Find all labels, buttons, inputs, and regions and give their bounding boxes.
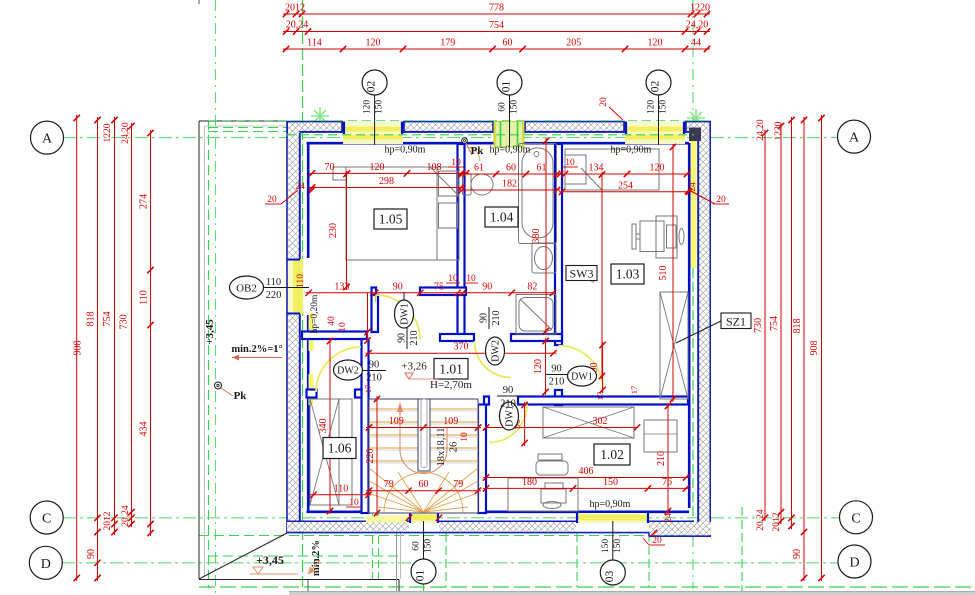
svg-text:90: 90 bbox=[479, 313, 490, 323]
svg-text:1.01: 1.01 bbox=[439, 361, 463, 376]
svg-text:10: 10 bbox=[349, 498, 359, 508]
wall between 1.04 and 1.03 upper bbox=[555, 144, 562, 345]
svg-text:150: 150 bbox=[601, 539, 611, 554]
svg-text:61: 61 bbox=[537, 163, 547, 174]
yellow sill strip bottom left of window O1 bbox=[366, 516, 407, 523]
svg-text:24: 24 bbox=[664, 513, 674, 523]
svg-text:90: 90 bbox=[792, 549, 803, 559]
stairs landing arc bbox=[400, 450, 447, 473]
label OB2 with fraction bbox=[230, 276, 264, 299]
svg-text:134: 134 bbox=[589, 163, 604, 174]
svg-text:205: 205 bbox=[566, 38, 581, 49]
right dim line 818 bbox=[803, 117, 805, 581]
svg-text:10: 10 bbox=[460, 432, 470, 442]
svg-text:A: A bbox=[849, 131, 860, 146]
green line top wall terrace part bbox=[208, 131, 302, 133]
wardrobe SZ1 room 1.03 bbox=[660, 292, 688, 399]
dim chain room 1.02 bottom bbox=[483, 487, 689, 489]
svg-text:120: 120 bbox=[647, 100, 657, 115]
svg-text:510: 510 bbox=[658, 266, 669, 281]
door tag DW2 shower bbox=[486, 337, 505, 365]
small desk right room 1.02 bbox=[644, 420, 677, 452]
svg-text:SZ1: SZ1 bbox=[726, 315, 746, 329]
green site line bottom y=587 bbox=[199, 586, 975, 588]
svg-text:hp=0,90m: hp=0,90m bbox=[490, 145, 531, 156]
svg-text:C: C bbox=[851, 511, 860, 526]
svg-text:24,20: 24,20 bbox=[686, 20, 709, 31]
door arc DW1 room 1.05 bbox=[376, 295, 421, 340]
svg-text:03: 03 bbox=[604, 571, 616, 583]
svg-text:1.02: 1.02 bbox=[600, 447, 624, 462]
window O1 bottom 60/150 bbox=[409, 513, 439, 523]
left dim line 730 bbox=[131, 123, 133, 527]
svg-text:10: 10 bbox=[451, 158, 461, 168]
green vertical window03 right bbox=[648, 533, 650, 587]
svg-text:02: 02 bbox=[366, 81, 378, 93]
svg-text:hp=0,90m: hp=0,90m bbox=[590, 499, 631, 510]
svg-text:D: D bbox=[41, 557, 51, 572]
axis green vertical x=693 through wall bbox=[692, 128, 694, 536]
label SW3 bbox=[566, 266, 597, 281]
svg-text:150: 150 bbox=[613, 539, 623, 554]
axis bubble A right bbox=[838, 120, 871, 153]
axis bubble D left bbox=[29, 546, 62, 579]
stairs outline bbox=[369, 399, 478, 513]
svg-text:60: 60 bbox=[412, 541, 422, 551]
top dimension line 2 bbox=[283, 31, 710, 33]
left wall yellow strips bbox=[309, 313, 314, 351]
dim chain room 1.04 top bbox=[459, 173, 560, 175]
extra ticks near C axis bbox=[406, 515, 412, 521]
svg-text:17: 17 bbox=[629, 386, 639, 395]
dim chain corridor y=293 bbox=[306, 292, 556, 294]
label SZ1 with leader bbox=[676, 321, 721, 343]
svg-text:SW3: SW3 bbox=[570, 267, 594, 281]
wall top of 1.02 main bbox=[518, 397, 688, 405]
svg-text:754: 754 bbox=[489, 20, 504, 31]
svg-text:20,24: 20,24 bbox=[756, 509, 766, 531]
svg-text:Pk: Pk bbox=[471, 145, 485, 157]
svg-text:44: 44 bbox=[691, 38, 701, 49]
green verticals hall door bottom bbox=[372, 512, 374, 580]
svg-text:754: 754 bbox=[769, 316, 780, 331]
dim 380 room 1.04 bbox=[545, 138, 547, 334]
tick marks wall corners bbox=[309, 187, 315, 193]
green vertical stairs door bbox=[445, 533, 447, 587]
svg-text:380: 380 bbox=[531, 229, 542, 244]
svg-text:+3,26: +3,26 bbox=[401, 361, 427, 373]
svg-text:1220: 1220 bbox=[690, 3, 710, 14]
svg-text:02: 02 bbox=[650, 81, 662, 93]
svg-text:20: 20 bbox=[716, 195, 726, 205]
window bubble O1 top bbox=[509, 95, 511, 147]
axis green vertical x=693 top bbox=[692, 0, 694, 128]
svg-text:302: 302 bbox=[593, 416, 608, 427]
svg-text:179: 179 bbox=[440, 38, 455, 49]
svg-text:120: 120 bbox=[648, 38, 663, 49]
svg-text:2012: 2012 bbox=[285, 3, 305, 14]
svg-text:90: 90 bbox=[369, 360, 380, 371]
axis bubble C left bbox=[30, 501, 63, 534]
svg-text:1220: 1220 bbox=[774, 121, 784, 140]
stairs treads right flight bbox=[430, 409, 478, 463]
svg-text:1.05: 1.05 bbox=[379, 212, 403, 227]
svg-text:75: 75 bbox=[434, 281, 444, 292]
svg-text:182: 182 bbox=[502, 179, 517, 190]
svg-text:109: 109 bbox=[389, 416, 404, 427]
door arc DW2 hall bbox=[316, 347, 361, 392]
right dim line short bbox=[791, 117, 793, 529]
svg-text:210: 210 bbox=[656, 451, 667, 466]
svg-text:hp=0,90m: hp=0,90m bbox=[385, 145, 426, 156]
svg-text:150: 150 bbox=[510, 100, 520, 115]
door tag DW1 room 1.03 bbox=[568, 366, 597, 386]
cabinet room 1.02 bbox=[543, 407, 634, 438]
svg-text:DW1: DW1 bbox=[571, 372, 593, 383]
bottom gray band bbox=[289, 592, 975, 595]
svg-text:90: 90 bbox=[482, 281, 492, 292]
svg-text:40: 40 bbox=[327, 316, 337, 326]
svg-text:60: 60 bbox=[503, 38, 513, 49]
room label 1.06 bbox=[323, 438, 356, 459]
svg-text:150: 150 bbox=[375, 100, 385, 115]
right dim line 730 bbox=[764, 130, 766, 521]
wall 1.06 hall vertical bbox=[362, 339, 369, 513]
svg-text:26: 26 bbox=[449, 442, 460, 453]
dim 90 door room 1.02 bbox=[524, 402, 526, 446]
svg-text:120: 120 bbox=[363, 100, 373, 115]
dim 79 60 79 stairs bbox=[366, 490, 481, 492]
green line terrace y=535 bbox=[199, 535, 694, 537]
door arc DW2 shower room bbox=[475, 341, 512, 378]
svg-text:10: 10 bbox=[466, 274, 476, 284]
shower room 1.04 bbox=[516, 295, 556, 335]
left wall band bbox=[286, 121, 288, 534]
fraction 90/210 door 1.03 bbox=[546, 374, 568, 376]
green dashed line along top wall bbox=[208, 120, 711, 122]
axis D green horizontal bbox=[62, 562, 838, 564]
right dim line 754 bbox=[780, 123, 782, 524]
svg-text:818: 818 bbox=[86, 311, 97, 326]
svg-text:24,20: 24,20 bbox=[121, 122, 131, 144]
axis grid vertical green dashed x=215 bbox=[215, 0, 217, 595]
survey star right bbox=[687, 109, 705, 127]
left dim line 818 bbox=[97, 117, 99, 581]
dim 510 room 1.03 bbox=[672, 144, 674, 402]
svg-text:114: 114 bbox=[307, 38, 322, 49]
left dim chain 274 110 434 bbox=[150, 130, 152, 536]
green line terrace y=556 bbox=[208, 555, 399, 557]
bed room 1.03 bbox=[565, 149, 659, 190]
window bubble O3 bottom bbox=[612, 521, 614, 560]
desk room 1.03 bbox=[656, 216, 677, 258]
svg-text:+3,45: +3,45 bbox=[256, 553, 284, 567]
svg-text:730: 730 bbox=[119, 314, 130, 329]
stairs center stringer bbox=[418, 399, 430, 471]
svg-text:1.03: 1.03 bbox=[616, 267, 640, 282]
top wall band segment 1 bbox=[287, 121, 344, 123]
svg-text:DW2: DW2 bbox=[337, 366, 359, 377]
svg-text:Pk: Pk bbox=[234, 390, 248, 402]
svg-text:10: 10 bbox=[448, 274, 458, 284]
axis bubble D right bbox=[838, 545, 871, 578]
wardrobe room 1.06 bbox=[310, 399, 339, 505]
window bubble O2 top-right bbox=[658, 95, 660, 145]
computer desk room 1.02 bbox=[508, 478, 578, 511]
svg-text:82: 82 bbox=[527, 281, 537, 292]
svg-text:754: 754 bbox=[102, 311, 113, 326]
right wall corner block bbox=[689, 128, 701, 142]
dim 302 room 1.02 bbox=[486, 427, 637, 429]
bed room 1.05 bbox=[346, 167, 459, 260]
svg-text:298: 298 bbox=[379, 176, 394, 187]
wall 1.05 bottom bbox=[420, 288, 466, 296]
wall stub vertical below 1.05 bbox=[372, 295, 379, 332]
top wall band segment 3 bbox=[524, 121, 625, 123]
svg-text:120: 120 bbox=[650, 163, 665, 174]
terrace outline left vertical bbox=[198, 121, 200, 579]
toilet room 1.04 bbox=[463, 174, 472, 195]
svg-text:110: 110 bbox=[334, 483, 349, 494]
wall bottom of shower right piece bbox=[511, 334, 562, 341]
svg-text:120: 120 bbox=[366, 38, 381, 49]
svg-text:230: 230 bbox=[328, 223, 339, 238]
dim 220 stairs bbox=[376, 396, 378, 516]
window OB2 left wall bbox=[293, 259, 303, 314]
svg-text:210: 210 bbox=[409, 331, 420, 346]
dim 182 room 1.04 bbox=[459, 189, 560, 191]
svg-text:01: 01 bbox=[415, 570, 427, 582]
window O2 top-right 120/150 bbox=[625, 122, 685, 144]
svg-text:274: 274 bbox=[139, 194, 150, 209]
dim 298 room 1.05 bbox=[309, 187, 464, 189]
svg-text:110: 110 bbox=[296, 274, 306, 288]
svg-text:OB2: OB2 bbox=[236, 283, 257, 295]
svg-text:18x18,11: 18x18,11 bbox=[436, 428, 447, 467]
svg-text:90: 90 bbox=[551, 364, 562, 375]
svg-text:1220: 1220 bbox=[103, 123, 113, 142]
fraction 90/210 hall door bbox=[363, 370, 387, 372]
svg-text:17: 17 bbox=[595, 392, 605, 401]
svg-text:109: 109 bbox=[443, 416, 458, 427]
fraction 90/210 shower door bbox=[479, 307, 503, 329]
svg-text:818: 818 bbox=[792, 319, 803, 334]
wall top of 1.02 left jamb bbox=[484, 397, 489, 405]
dim 340 room 1.06 bbox=[329, 338, 331, 514]
section line bottom left bbox=[398, 580, 400, 595]
room label 1.03 bbox=[611, 264, 644, 284]
wall 1.06 top left piece bbox=[307, 390, 317, 398]
top edge mark bbox=[198, 0, 200, 4]
svg-text:60: 60 bbox=[498, 102, 508, 112]
wall callout top right 24 20 bbox=[689, 190, 715, 204]
svg-text:908: 908 bbox=[809, 341, 820, 356]
svg-text:908: 908 bbox=[73, 341, 84, 356]
axis green vertical x=302 top bbox=[302, 0, 304, 587]
svg-text:79: 79 bbox=[384, 479, 394, 490]
svg-text:1.04: 1.04 bbox=[490, 210, 514, 225]
wall hall top H3 bbox=[302, 332, 367, 340]
window O3 bottom 150/150 bbox=[576, 513, 649, 523]
room label 1.05 bbox=[374, 209, 407, 229]
top wall band segment 2 bbox=[403, 121, 494, 123]
fraction 90/210 door 1.05 bbox=[397, 327, 421, 349]
svg-text:210: 210 bbox=[549, 377, 565, 388]
dim line hall x=367 bbox=[367, 293, 369, 341]
left dim line 754 bbox=[114, 117, 116, 535]
svg-text:120: 120 bbox=[533, 359, 544, 374]
terrace green line x=208 bbox=[208, 120, 210, 588]
left wall inner face line bbox=[307, 143, 310, 258]
svg-text:210: 210 bbox=[491, 311, 502, 326]
green vertical window03 left bbox=[576, 533, 578, 587]
svg-text:10: 10 bbox=[338, 322, 348, 332]
svg-text:DW2: DW2 bbox=[491, 340, 502, 362]
text Pk top with symbol bbox=[462, 138, 468, 144]
entry door top greenish bbox=[494, 122, 524, 148]
svg-text:180: 180 bbox=[522, 477, 537, 488]
dim 210 room 1.02 bbox=[667, 403, 669, 514]
window bubble O1 bottom bbox=[423, 521, 425, 559]
top dimension line 3 bbox=[283, 48, 710, 50]
svg-text:133: 133 bbox=[334, 281, 349, 292]
svg-text:110: 110 bbox=[139, 290, 150, 305]
svg-text:340: 340 bbox=[318, 419, 329, 434]
door tag DW2 hall bbox=[334, 360, 363, 380]
svg-text:90: 90 bbox=[397, 333, 408, 343]
svg-text:120: 120 bbox=[370, 162, 385, 173]
bathtub room 1.04 bbox=[519, 144, 557, 244]
wall callout top left 24 20 bbox=[281, 190, 298, 204]
svg-text:61: 61 bbox=[474, 163, 484, 174]
right wall inner face line bbox=[688, 143, 691, 508]
dim 254 room 1.03 bbox=[559, 191, 692, 193]
svg-text:60: 60 bbox=[506, 163, 516, 174]
terrace outline top bbox=[199, 120, 287, 122]
axis bubble A left bbox=[31, 121, 64, 154]
door arc small entry bbox=[466, 147, 480, 161]
svg-text:150: 150 bbox=[603, 477, 618, 488]
text Pk terrace with symbol bbox=[215, 382, 222, 389]
svg-text:210: 210 bbox=[366, 373, 382, 384]
dim 403 room 1.03 bbox=[601, 172, 603, 380]
stairs fan treads orange bbox=[369, 468, 478, 512]
green vertical x=742 bottom right bbox=[741, 507, 743, 595]
axis 01 green vertical bottom bbox=[423, 530, 425, 595]
wall 1.06 top cap bbox=[355, 390, 362, 398]
svg-text:220: 220 bbox=[365, 449, 376, 464]
terrace diagonal bbox=[199, 533, 287, 579]
dim 370 corridor bbox=[366, 352, 557, 354]
svg-text:20: 20 bbox=[267, 195, 277, 205]
axis bubble C right bbox=[840, 501, 873, 534]
wall bottom of 1.04 left piece bbox=[440, 334, 474, 341]
room label 1.02 bbox=[594, 444, 630, 465]
door tag DW1 room 1.02 bbox=[500, 402, 519, 430]
wall between 1.05 and 1.04 bbox=[458, 144, 465, 341]
axis A green horizontal bbox=[63, 137, 838, 139]
bottom wall inner face line bbox=[307, 510, 690, 513]
dim 406 room 1.02 bbox=[483, 477, 689, 479]
svg-text:01: 01 bbox=[501, 81, 513, 93]
svg-text:60: 60 bbox=[419, 479, 429, 490]
green line bottom wall y=521 bbox=[286, 521, 694, 523]
svg-text:76: 76 bbox=[662, 477, 672, 488]
window O2 top-left 120/150 bbox=[343, 122, 403, 144]
window bubble O2 top-left bbox=[374, 95, 376, 145]
room label 1.01 bbox=[434, 359, 468, 380]
svg-text:10: 10 bbox=[565, 158, 575, 168]
green dashed line through top windows bbox=[286, 134, 694, 136]
stairs treads left flight bbox=[369, 409, 418, 463]
terrace inner offset lines bbox=[204, 126, 206, 576]
door arc DW1 room 1.03 bbox=[559, 346, 604, 391]
svg-text:110: 110 bbox=[266, 277, 281, 288]
wall 1.03 door jamb lower bbox=[555, 390, 562, 405]
svg-text:H=2,70m: H=2,70m bbox=[430, 379, 472, 391]
fraction 90/210 door 1.02 bbox=[497, 395, 519, 397]
svg-text:A: A bbox=[42, 132, 53, 147]
svg-text:220: 220 bbox=[266, 290, 282, 301]
sink room 1.04 bbox=[532, 243, 556, 273]
svg-text:1.06: 1.06 bbox=[328, 441, 352, 456]
svg-text:D: D bbox=[849, 556, 859, 571]
door arc DW1 room 1.02 bbox=[489, 405, 527, 443]
svg-text:108: 108 bbox=[427, 162, 442, 173]
svg-text:254: 254 bbox=[618, 180, 633, 191]
right dim line 908 bbox=[821, 115, 823, 581]
section line bottom x=308 bbox=[307, 580, 309, 595]
svg-text:210: 210 bbox=[500, 399, 516, 410]
svg-text:20: 20 bbox=[652, 536, 662, 546]
svg-text:370: 370 bbox=[454, 342, 469, 353]
svg-text:70: 70 bbox=[325, 162, 335, 173]
svg-text:20,24: 20,24 bbox=[286, 20, 309, 31]
svg-text:2012: 2012 bbox=[772, 512, 782, 531]
terrace bottom line bbox=[199, 579, 399, 581]
svg-text:+3,45: +3,45 bbox=[204, 319, 216, 345]
dim 110 room 1.06 bbox=[311, 494, 372, 496]
dim 230 room 1.05 bbox=[346, 171, 348, 290]
wall stairs right vertical bbox=[478, 405, 486, 514]
bottom wall band bbox=[287, 520, 409, 522]
dim 109 109 stairs bbox=[366, 427, 481, 429]
svg-text:hp=0,90m: hp=0,90m bbox=[611, 145, 652, 156]
svg-text:150: 150 bbox=[424, 539, 434, 554]
svg-text:min.2%=1°: min.2%=1° bbox=[231, 344, 282, 355]
svg-text:434: 434 bbox=[139, 422, 150, 437]
top dimension line 1 bbox=[283, 13, 710, 15]
svg-text:20: 20 bbox=[599, 97, 609, 107]
door tag DW1 corridor-1.05 bbox=[395, 300, 414, 328]
top wall inner face line bbox=[307, 142, 690, 145]
top wall band segment 4 bbox=[685, 121, 711, 123]
wall cap left of door DW1 1.05 bbox=[372, 288, 377, 296]
svg-text:406: 406 bbox=[579, 466, 594, 477]
svg-text:20,24: 20,24 bbox=[121, 505, 131, 527]
svg-text:150: 150 bbox=[659, 100, 669, 115]
svg-text:778: 778 bbox=[489, 3, 504, 14]
green line terrace top y=127.5 bbox=[208, 127, 287, 129]
dim chain room 1.03 top bbox=[557, 173, 690, 175]
svg-text:90: 90 bbox=[503, 385, 514, 396]
svg-text:DW1: DW1 bbox=[400, 303, 411, 325]
stairs walk line with arrow bbox=[400, 411, 447, 450]
survey star left bbox=[311, 107, 329, 125]
dim 120 door room 1.03 side bbox=[545, 338, 547, 395]
svg-text:17: 17 bbox=[363, 385, 373, 394]
svg-text:79: 79 bbox=[453, 479, 463, 490]
